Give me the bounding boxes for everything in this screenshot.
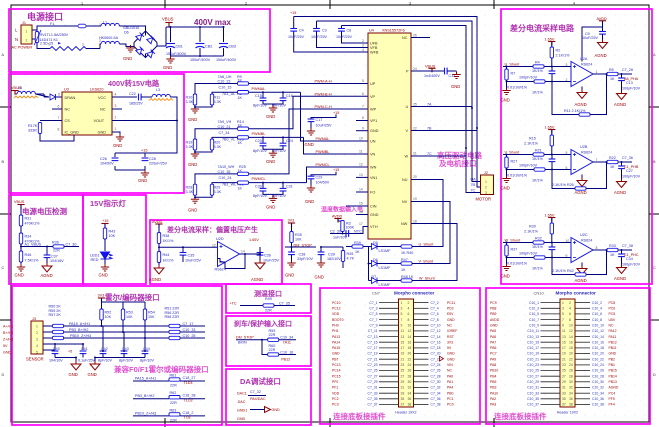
svg-text:N: N [15, 37, 18, 42]
svg-text:2: 2 [82, 43, 84, 47]
resistor R3 100K [341, 221, 344, 232]
svg-text:C7_32: C7_32 [250, 390, 261, 394]
svg-text:AGND: AGND [609, 386, 619, 390]
svg-text:21: 21 [562, 357, 566, 361]
svg-text:5: 5 [36, 351, 38, 355]
capacitor C24 [280, 143, 287, 146]
svg-text:GND: GND [285, 273, 294, 278]
svg-text:GND: GND [266, 205, 275, 210]
svg-text:20: 20 [408, 352, 412, 356]
PWM filter block A [186, 75, 369, 141]
svg-text:L3: L3 [156, 88, 160, 92]
svg-text:AGND: AGND [614, 102, 626, 107]
svg-text:PWM-A-H: PWM-A-H [315, 79, 332, 83]
svg-text:L5: L5 [18, 86, 22, 90]
svg-text:1.65V: 1.65V [249, 238, 259, 242]
svg-text:PC10: PC10 [332, 301, 341, 305]
svg-text:C7_31: C7_31 [368, 386, 378, 390]
capacitor C29 [308, 176, 315, 179]
svg-text:23: 23 [562, 363, 566, 367]
svg-text:PWM-B-H: PWM-B-H [315, 92, 332, 96]
svg-text:6: 6 [408, 312, 410, 316]
svg-text:23: 23 [401, 363, 405, 367]
svg-text:24: 24 [408, 363, 412, 367]
svg-text:C10_27: C10_27 [527, 374, 539, 378]
box 霍尔/编码器接口 [12, 286, 222, 425]
svg-text:C10_37: C10_37 [527, 403, 539, 407]
svg-text:7: 7 [362, 105, 364, 109]
svg-text:C10_14: C10_14 [592, 335, 604, 339]
wire +input C [503, 242, 571, 244]
svg-text:BOOT0: BOOT0 [332, 318, 344, 322]
svg-text:C7_28: C7_28 [431, 374, 441, 378]
resistor R52 10K [100, 309, 103, 320]
svg-text:1K: 1K [401, 268, 406, 272]
svg-text:PH0: PH0 [332, 323, 339, 327]
svg-text:1K: 1K [238, 141, 243, 145]
svg-text:13: 13 [562, 335, 566, 339]
capacitor C17 [308, 119, 315, 122]
svg-text:E5V: E5V [447, 312, 454, 316]
wire J1 to rails [32, 26, 78, 49]
svg-text:15: 15 [359, 202, 363, 206]
wire feedback C / resistor R42 [552, 250, 607, 275]
svg-text:22R: 22R [170, 384, 177, 388]
resistor R34 470K [19, 233, 22, 244]
svg-text:LS1MF: LS1MF [379, 283, 392, 287]
svg-text:15V指示灯: 15V指示灯 [90, 198, 126, 208]
svg-text:7B1_WL: 7B1_WL [222, 183, 236, 187]
svg-text:PC12: PC12 [332, 307, 341, 311]
svg-text:34: 34 [569, 391, 573, 395]
PWM filter block C [186, 109, 369, 213]
svg-text:PC2: PC2 [332, 397, 339, 401]
svg-text:13: 13 [401, 335, 405, 339]
svg-text:Header 19X2: Header 19X2 [557, 411, 578, 415]
svg-text:GND: GND [370, 213, 379, 217]
svg-text:1K/1%: 1K/1% [532, 266, 544, 270]
svg-text:182/10V: 182/10V [327, 257, 341, 261]
svg-text:AVDD: AVDD [152, 220, 163, 224]
svg-text:C7_16: C7_16 [431, 340, 441, 344]
svg-text:C27: C27 [626, 169, 633, 173]
svg-text:1K: 1K [610, 253, 615, 257]
svg-text:PB14: PB14 [609, 374, 617, 378]
resistor R2 2.1K [550, 47, 553, 58]
svg-text:R11 2.1K/1%: R11 2.1K/1% [564, 109, 586, 113]
svg-text:9: 9 [362, 126, 364, 130]
svg-text:C13: C13 [626, 81, 633, 85]
ground C23 C24 [269, 150, 277, 157]
svg-text:GND: GND [266, 159, 275, 164]
svg-text:GND: GND [490, 323, 498, 327]
svg-text:GND: GND [113, 143, 122, 148]
svg-text:NC: NC [65, 108, 71, 112]
capacitor CB2 [196, 44, 205, 48]
svg-text:32: 32 [408, 386, 412, 390]
svg-text:+15: +15 [290, 11, 296, 15]
capacitor C28 [142, 158, 149, 161]
wire U2D output [218, 254, 261, 269]
wire +input B [503, 154, 571, 156]
resistor R53 10K [121, 309, 124, 320]
resistor R19 3.3K [193, 139, 196, 150]
resistor R28 3.3K [193, 184, 196, 195]
capacitor C16 [280, 98, 287, 101]
wire V+ to AVDD [582, 27, 603, 62]
ground AGND C27 [617, 179, 627, 188]
svg-text:34: 34 [408, 391, 412, 395]
svg-text:C10_25: C10_25 [527, 369, 539, 373]
svg-text:7C: 7C [471, 189, 476, 193]
svg-text:LS1MF: LS1MF [379, 266, 392, 270]
svg-text:6: 6 [569, 312, 571, 316]
svg-text:C7_13: C7_13 [368, 335, 378, 339]
resistor R35 10K [290, 232, 293, 243]
resistor R44 1K [157, 252, 160, 263]
svg-text:C18_2: C18_2 [183, 411, 194, 415]
svg-text:VOUT: VOUT [94, 119, 105, 123]
svg-text:11: 11 [401, 329, 405, 333]
svg-text:C10_15: C10_15 [527, 340, 539, 344]
svg-text:2.1K/1%: 2.1K/1% [524, 230, 539, 234]
svg-text:26: 26 [408, 369, 412, 373]
svg-text:15: 15 [401, 340, 405, 344]
svg-text:3: 3 [401, 307, 403, 311]
wire bootstrap loop 3 [342, 26, 467, 157]
svg-text:2.1K/1%: 2.1K/1% [556, 54, 571, 58]
svg-text:37: 37 [562, 403, 566, 407]
ground R46 [17, 264, 25, 271]
resistor R18b [238, 136, 249, 139]
svg-text:GND: GND [69, 372, 78, 377]
svg-text:C7_5: C7_5 [369, 312, 377, 316]
resistor R50 [53, 324, 64, 327]
svg-text:10uF/25V: 10uF/25V [263, 259, 280, 263]
svg-text:RED: RED [91, 258, 99, 262]
svg-text:C34: C34 [626, 257, 633, 261]
svg-text:220uF/25V: 220uF/25V [149, 162, 168, 166]
svg-text:C7_34: C7_34 [219, 131, 230, 135]
svg-text:PB5: PB5 [490, 380, 497, 384]
svg-text:3.3K: 3.3K [214, 100, 222, 104]
svg-text:IC_GND: IC_GND [65, 131, 80, 135]
svg-text:C7_24: C7_24 [431, 363, 441, 367]
svg-text:PB3_B+/H2: PB3_B+/H2 [135, 394, 154, 398]
svg-text:100pF/10V: 100pF/10V [519, 164, 538, 168]
svg-text:0.01/1W/1%: 0.01/1W/1% [507, 262, 528, 266]
svg-text:33: 33 [562, 391, 566, 395]
box 刹车/保护输入接口 [226, 316, 311, 366]
svg-text:16: 16 [359, 210, 363, 214]
svg-text:2.1K/1%: 2.1K/1% [524, 142, 539, 146]
svg-text:GND: GND [451, 84, 460, 89]
svg-text:C10_10: C10_10 [592, 323, 604, 327]
svg-text:C29: C29 [316, 175, 323, 179]
svg-text:F1: F1 [50, 22, 54, 26]
svg-text:R32: R32 [535, 237, 542, 241]
svg-text:+15: +15 [141, 149, 147, 153]
svg-text:GND: GND [315, 275, 324, 280]
svg-text:PF1: PF1 [332, 386, 338, 390]
svg-text:U: U [406, 105, 409, 109]
wire temp [240, 305, 263, 307]
svg-text:+5: +5 [68, 350, 72, 354]
svg-text:C10_21: C10_21 [527, 357, 539, 361]
svg-text:3: 3 [566, 63, 568, 67]
svg-text:C18_27: C18_27 [183, 376, 196, 380]
svg-text:GND: GND [447, 352, 455, 356]
svg-text:AGND: AGND [575, 190, 587, 195]
svg-text:GND: GND [501, 274, 510, 279]
svg-text:8pF/10V: 8pF/10V [119, 359, 133, 363]
svg-text:C7_4: C7_4 [431, 307, 439, 311]
svg-text:PA4: PA4 [447, 386, 453, 390]
ground bridge [126, 45, 134, 52]
svg-text:PA14: PA14 [332, 340, 340, 344]
placeholder groups to be filled [12, 17, 237, 71]
svg-text:VDD: VDD [332, 391, 340, 395]
svg-text:连接底板接插件: 连接底板接插件 [494, 411, 547, 421]
resistor R20 3.3K [210, 139, 213, 150]
svg-text:电源电压检测: 电源电压检测 [22, 206, 67, 216]
stubs NC/CS left [40, 109, 122, 121]
svg-text:17: 17 [562, 346, 566, 350]
node bias / wire to opamp [159, 246, 218, 248]
svg-text:PA15_A+/H1: PA15_A+/H1 [69, 322, 90, 326]
svg-text:PC7: PC7 [490, 352, 497, 356]
svg-text:8pF/10V: 8pF/10V [140, 359, 154, 363]
svg-text:C7_21: C7_21 [368, 357, 378, 361]
svg-text:1uF/10V: 1uF/10V [333, 236, 347, 240]
svg-text:C10_29: C10_29 [527, 380, 539, 384]
svg-text:DAC: DAC [238, 400, 246, 404]
svg-text:3V3: 3V3 [447, 340, 453, 344]
ground R10 [195, 105, 212, 108]
resistor R15 2.1K [550, 135, 553, 146]
svg-text:DM_STOP: DM_STOP [236, 336, 254, 340]
PWM filter block B [186, 96, 369, 167]
svg-text:6: 6 [566, 166, 568, 170]
svg-text:RS624: RS624 [581, 63, 592, 67]
svg-text:CN10: CN10 [534, 291, 545, 296]
svg-text:PC11: PC11 [447, 301, 455, 305]
svg-text:R45: R45 [347, 252, 354, 256]
ground hall 1 [71, 361, 81, 370]
svg-text:CB3: CB3 [229, 45, 236, 49]
svg-text:PH1: PH1 [332, 329, 339, 333]
wire output C [593, 249, 632, 251]
svg-text:C10_16: C10_16 [592, 340, 604, 344]
svg-text:15: 15 [562, 340, 566, 344]
svg-text:PA2: PA2 [490, 397, 496, 401]
svg-text:GND: GND [305, 199, 314, 204]
svg-text:C35: C35 [188, 254, 195, 258]
svg-text:7B0_VL: 7B0_VL [222, 137, 235, 141]
svg-text:32: 32 [569, 386, 573, 390]
svg-text:10uF/25V: 10uF/25V [582, 36, 599, 40]
svg-text:PB15: PB15 [609, 369, 617, 373]
ground hall 2 [90, 361, 100, 370]
svg-text:R39: R39 [354, 241, 361, 245]
svg-text:10uF/25V: 10uF/25V [316, 123, 333, 127]
svg-text:VDD: VDD [332, 312, 340, 316]
svg-text:CS: CS [65, 119, 71, 123]
svg-text:22: 22 [408, 357, 412, 361]
svg-text:AC POWER: AC POWER [12, 46, 33, 50]
svg-text:PF0: PF0 [332, 380, 338, 384]
svg-text:AGND: AGND [149, 277, 161, 282]
svg-text:C7_30: C7_30 [66, 243, 77, 247]
svg-text:PB4: PB4 [490, 374, 497, 378]
svg-text:7B: 7B [471, 183, 476, 187]
svg-text:R2: R2 [556, 49, 561, 53]
capacitor C37 [46, 247, 48, 256]
svg-text:PWMBL: PWMBL [316, 150, 330, 154]
svg-text:C10_33: C10_33 [527, 391, 539, 395]
svg-text:IOREF: IOREF [447, 329, 457, 333]
capacitor C10 [551, 67, 553, 82]
svg-text:C10_16: C10_16 [280, 351, 293, 355]
svg-text:1K/1%: 1K/1% [532, 245, 544, 249]
svg-text:R33: R33 [609, 244, 616, 248]
svg-text:C36: C36 [264, 254, 271, 258]
ground AGND C34 [617, 265, 627, 274]
svg-text:5: 5 [562, 312, 564, 316]
svg-text:4.7K: 4.7K [347, 257, 355, 261]
svg-text:8: 8 [362, 116, 364, 120]
ground R19 [195, 150, 212, 153]
svg-text:C7_1: C7_1 [369, 301, 377, 305]
svg-text:+15: +15 [102, 219, 108, 223]
svg-text:DA调试接口: DA调试接口 [240, 376, 281, 386]
svg-text:3.3K: 3.3K [214, 190, 222, 194]
svg-text:R29: R29 [214, 186, 221, 190]
capacitor C13 [621, 74, 623, 93]
svg-text:R61: R61 [170, 374, 177, 378]
capacitor C32 [346, 230, 349, 237]
svg-text:8pF/10V: 8pF/10V [253, 149, 267, 153]
svg-text:8: 8 [596, 246, 598, 250]
svg-text:PB8: PB8 [490, 307, 497, 311]
svg-text:Z+/H3: Z+/H3 [3, 338, 13, 342]
svg-text:PB10_Z+/H3: PB10_Z+/H3 [135, 411, 156, 415]
box CN10 [486, 288, 650, 424]
svg-text:VTH: VTH [370, 225, 378, 229]
svg-text:1K: 1K [355, 250, 360, 254]
svg-text:24: 24 [569, 363, 573, 367]
svg-text:C15: C15 [255, 94, 262, 98]
svg-text:3.3K: 3.3K [214, 145, 222, 149]
svg-text:7B: 7B [427, 126, 432, 130]
svg-text:C6: C6 [347, 28, 352, 32]
svg-text:C26: C26 [100, 157, 107, 161]
svg-text:10K: 10K [109, 234, 116, 238]
svg-text:C40: C40 [53, 347, 60, 351]
svg-text:PA4/DAC: PA4/DAC [250, 397, 266, 401]
svg-text:1: 1 [26, 30, 28, 34]
svg-text:PC9: PC9 [490, 301, 497, 305]
capacitor C25 [551, 155, 553, 170]
wire feedback A / resistor R11 [552, 74, 607, 115]
svg-text:WFB: WFB [370, 51, 379, 55]
svg-text:VN: VN [370, 153, 376, 157]
svg-text:VBUS: VBUS [14, 200, 25, 204]
svg-text:C2_30: C2_30 [330, 230, 341, 234]
svg-text:R19: R19 [186, 141, 193, 145]
svg-text:C7_8: C7_8 [431, 318, 439, 322]
svg-text:C7_3: C7_3 [369, 307, 377, 311]
svg-text:33: 33 [401, 391, 405, 395]
svg-text:C: C [2, 266, 5, 270]
svg-text:4: 4 [569, 307, 571, 311]
svg-text:104/16V: 104/16V [50, 259, 64, 263]
svg-text:26: 26 [413, 33, 417, 37]
svg-text:1.65V: 1.65V [545, 214, 555, 218]
svg-text:R22: R22 [609, 156, 616, 160]
svg-text:AGND: AGND [614, 190, 626, 195]
svg-text:C10_38: C10_38 [592, 403, 604, 407]
svg-text:PC4: PC4 [609, 391, 616, 395]
svg-text:C: C [653, 266, 656, 270]
svg-text:29: 29 [562, 380, 566, 384]
svg-text:PB9: PB9 [490, 312, 497, 316]
IC U4 XNS15572F6 [368, 33, 411, 239]
resistor R14 [238, 127, 249, 130]
svg-text:C43: C43 [122, 347, 129, 351]
svg-text:R44: R44 [163, 253, 170, 257]
svg-text:2: 2 [36, 331, 38, 335]
wire pin rows CN7 [379, 303, 429, 405]
box 15V指示灯 [83, 195, 146, 284]
svg-text:PWMCL: PWMCL [316, 163, 330, 167]
svg-text:W_Shunt: W_Shunt [419, 277, 436, 281]
svg-text:9: 9 [401, 323, 403, 327]
ground R28 [195, 195, 212, 198]
svg-text:PB12: PB12 [281, 357, 290, 361]
svg-text:1: 1 [81, 2, 83, 6]
svg-text:C7_11: C7_11 [368, 329, 378, 333]
svg-text:GND: GND [305, 142, 314, 147]
svg-text:A+/H1: A+/H1 [3, 325, 13, 329]
capacitor C12 [445, 68, 448, 75]
svg-text:22: 22 [413, 126, 417, 130]
svg-text:2: 2 [485, 186, 487, 190]
svg-text:PA8: PA8 [490, 363, 496, 367]
svg-text:R47: R47 [401, 258, 408, 262]
svg-text:1K: 1K [610, 77, 615, 81]
svg-text:PC6: PC6 [609, 307, 616, 311]
svg-text:C7_17: C7_17 [368, 346, 378, 350]
svg-text:12: 12 [408, 329, 412, 333]
svg-text:UA: UA [471, 178, 477, 182]
svg-text:W: W [405, 154, 409, 158]
svg-text:8pF/10V: 8pF/10V [98, 359, 112, 363]
svg-text:27: 27 [562, 374, 566, 378]
ground LED [101, 264, 109, 271]
wire output B [593, 161, 632, 163]
svg-text:PB10_Z+/H3: PB10_Z+/H3 [70, 334, 91, 338]
svg-text:GND: GND [272, 408, 281, 412]
svg-text:RST: RST [447, 335, 454, 339]
svg-text:C44: C44 [143, 347, 150, 351]
svg-text:C10_7: C10_7 [529, 318, 539, 322]
resistor R5 [238, 91, 249, 94]
svg-text:470K/1%: 470K/1% [25, 222, 41, 226]
resistor R9 [238, 82, 249, 85]
ground R37 [502, 264, 510, 271]
svg-text:R5: R5 [609, 68, 614, 72]
